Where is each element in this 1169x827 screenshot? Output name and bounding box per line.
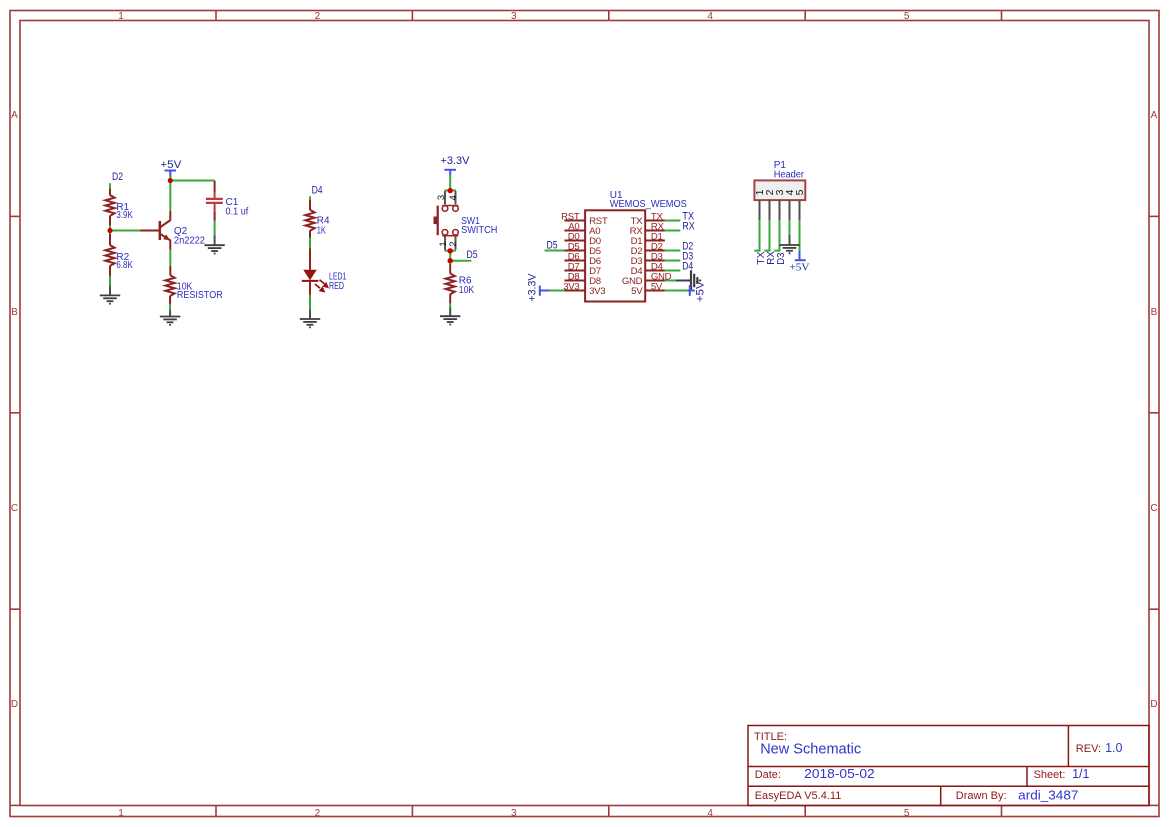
svg-text:1.0: 1.0 xyxy=(1105,741,1122,755)
svg-text:2: 2 xyxy=(315,808,321,819)
svg-text:3.9K: 3.9K xyxy=(116,210,133,221)
svg-text:D: D xyxy=(11,699,18,710)
svg-text:6.8K: 6.8K xyxy=(116,260,133,271)
svg-text:3: 3 xyxy=(436,195,447,200)
svg-text:RED: RED xyxy=(329,281,344,292)
svg-text:1K: 1K xyxy=(317,225,326,236)
svg-text:5: 5 xyxy=(904,11,910,22)
svg-text:3V3: 3V3 xyxy=(563,282,579,293)
svg-text:1: 1 xyxy=(118,808,124,819)
svg-text:D5: D5 xyxy=(547,240,558,252)
svg-text:2: 2 xyxy=(448,241,459,246)
svg-text:A: A xyxy=(11,110,18,121)
svg-text:B: B xyxy=(1151,307,1158,318)
svg-text:5V: 5V xyxy=(631,286,643,297)
svg-text:2018-05-02: 2018-05-02 xyxy=(804,767,875,781)
svg-text:10K: 10K xyxy=(459,285,475,296)
svg-text:REV:: REV: xyxy=(1076,743,1101,755)
svg-text:D4: D4 xyxy=(682,260,693,272)
svg-text:D3: D3 xyxy=(776,252,787,265)
svg-text:C: C xyxy=(11,503,18,514)
svg-text:0.1 uf: 0.1 uf xyxy=(226,206,249,217)
svg-text:WEMOS_WEMOS: WEMOS_WEMOS xyxy=(610,199,687,210)
svg-text:5: 5 xyxy=(904,808,910,819)
svg-text:2: 2 xyxy=(315,11,321,22)
svg-text:Drawn By:: Drawn By: xyxy=(956,790,1007,802)
svg-text:C: C xyxy=(1150,503,1157,514)
svg-text:Date:: Date: xyxy=(755,769,781,781)
svg-text:5V: 5V xyxy=(651,282,663,293)
svg-text:A: A xyxy=(1151,110,1158,121)
svg-text:D5: D5 xyxy=(467,249,478,261)
svg-text:+5V: +5V xyxy=(790,262,810,274)
svg-text:RX: RX xyxy=(682,220,695,232)
svg-text:B: B xyxy=(11,307,18,318)
svg-text:4: 4 xyxy=(707,808,713,819)
svg-text:D2: D2 xyxy=(112,171,123,183)
svg-text:RESISTOR: RESISTOR xyxy=(177,290,223,301)
svg-text:1/1: 1/1 xyxy=(1072,767,1089,781)
svg-text:ardi_3487: ardi_3487 xyxy=(1018,788,1078,802)
svg-text:EasyEDA V5.4.11: EasyEDA V5.4.11 xyxy=(755,790,842,802)
svg-text:+5V: +5V xyxy=(694,281,706,303)
svg-text:D4: D4 xyxy=(312,184,323,196)
svg-text:+3.3V: +3.3V xyxy=(441,155,471,167)
svg-text:SWITCH: SWITCH xyxy=(461,225,497,236)
svg-text:Sheet:: Sheet: xyxy=(1034,769,1066,781)
svg-text:3V3: 3V3 xyxy=(589,286,605,297)
svg-text:2n2222: 2n2222 xyxy=(174,235,206,246)
svg-text:3: 3 xyxy=(511,808,517,819)
svg-text:4: 4 xyxy=(448,195,459,200)
svg-text:3: 3 xyxy=(511,11,517,22)
svg-text:New Schematic: New Schematic xyxy=(760,740,861,757)
svg-text:+5V: +5V xyxy=(160,159,182,171)
svg-text:5: 5 xyxy=(794,189,806,195)
svg-text:4: 4 xyxy=(707,11,713,22)
svg-text:+3.3V: +3.3V xyxy=(527,273,539,302)
svg-text:1: 1 xyxy=(118,11,124,22)
svg-text:D: D xyxy=(1150,699,1157,710)
svg-text:Header: Header xyxy=(774,170,805,181)
